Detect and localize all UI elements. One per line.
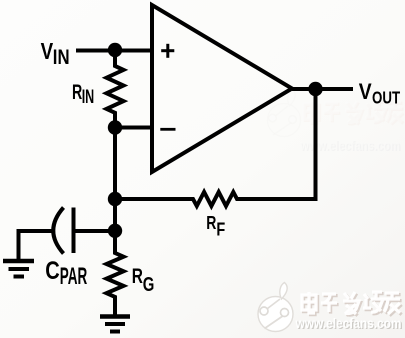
svg-text:V: V <box>41 38 54 65</box>
svg-text:F: F <box>216 219 225 240</box>
svg-text:V: V <box>359 80 372 104</box>
svg-text:PAR: PAR <box>60 263 87 290</box>
svg-text:IN: IN <box>82 86 95 107</box>
svg-text:R: R <box>206 213 216 233</box>
svg-text:R: R <box>72 80 82 104</box>
svg-text:www.elecfans.com: www.elecfans.com <box>295 315 402 331</box>
svg-text:OUT: OUT <box>372 89 400 108</box>
svg-text:C: C <box>45 256 59 285</box>
svg-text:IN: IN <box>53 46 70 69</box>
svg-text:R: R <box>132 263 144 287</box>
svg-text:G: G <box>143 273 155 296</box>
